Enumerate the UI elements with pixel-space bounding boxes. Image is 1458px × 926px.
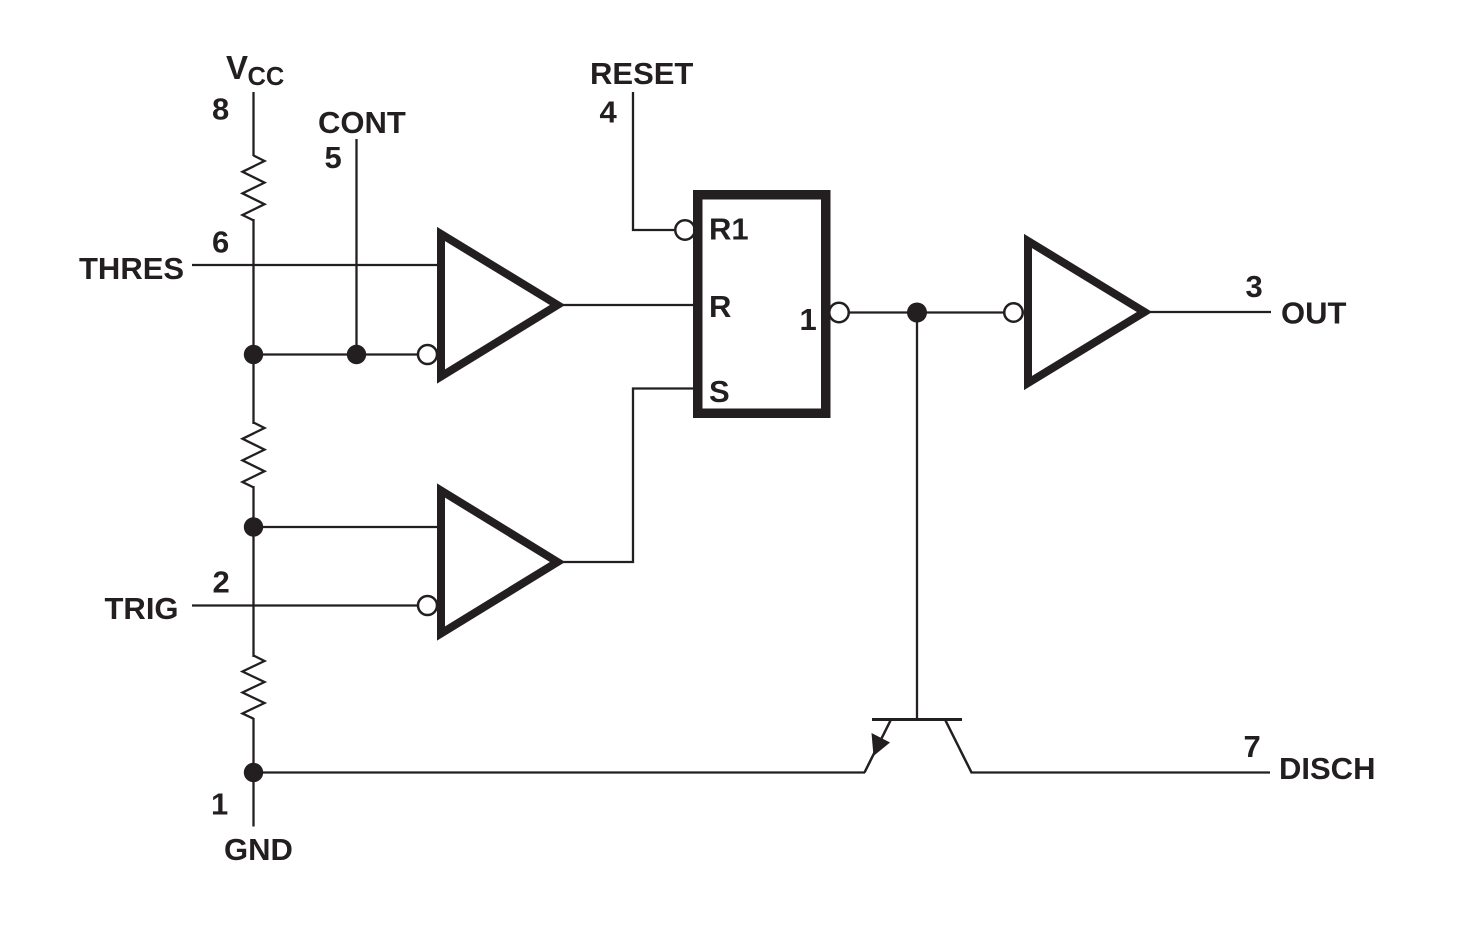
wire TRIG: [192, 604, 417, 606]
wire flip-flop output to buffer: [849, 311, 1004, 313]
op-amp comparator1 (THRES): [441, 234, 558, 377]
svg-text:S: S: [709, 374, 730, 409]
wire THRES: [192, 264, 441, 266]
inversion bubble comparator1 minus input: [418, 345, 437, 364]
wire rail RA to node: [252, 219, 254, 355]
transistor Q1 base bar: [872, 718, 962, 721]
svg-text:2: 2: [213, 565, 230, 600]
svg-text:7: 7: [1244, 729, 1261, 764]
junction dot CONT: [347, 345, 366, 364]
wire comparator2 output: [562, 389, 694, 563]
wire node B to comparator2 plus input: [254, 526, 442, 528]
wire comparator1 output to R: [562, 304, 694, 306]
flip-flop U1 box: [698, 195, 826, 414]
junction dot node A: [244, 345, 263, 364]
svg-text:V: V: [226, 49, 248, 86]
svg-text:GND: GND: [224, 832, 293, 867]
svg-text:1: 1: [211, 787, 228, 822]
svg-text:3: 3: [1246, 269, 1263, 304]
wire rail RB to node B: [252, 486, 254, 528]
resistor RC: [243, 656, 265, 719]
wire rail node B to RC: [252, 527, 254, 657]
wire VCC rail top: [252, 92, 254, 156]
svg-text:5: 5: [325, 140, 342, 175]
svg-text:CC: CC: [248, 63, 285, 91]
resistor RB: [243, 423, 265, 488]
wire GND node to transistor: [254, 771, 866, 773]
label VCC: [226, 49, 284, 91]
wire rail node A to RB: [252, 355, 254, 425]
svg-text:4: 4: [600, 95, 618, 130]
wire RESET: [633, 92, 674, 230]
svg-text:R1: R1: [709, 212, 749, 247]
resistor RA: [243, 156, 265, 221]
buffer U2 output stage: [1028, 241, 1145, 383]
wire buffer output to OUT: [1149, 311, 1271, 313]
svg-text:R: R: [709, 289, 731, 324]
wire GND stub: [252, 773, 254, 827]
svg-text:6: 6: [212, 225, 229, 260]
svg-text:CONT: CONT: [318, 105, 406, 140]
inversion bubble comparator2 minus input: [418, 596, 437, 615]
wire transistor to DISCH: [971, 771, 1271, 773]
wire node to comparator bubble: [254, 353, 418, 355]
wire rail RC to GND node: [252, 718, 254, 773]
svg-text:TRIG: TRIG: [105, 591, 179, 626]
svg-text:8: 8: [212, 92, 229, 127]
transistor Q1 emitter: [865, 721, 891, 773]
svg-text:RESET: RESET: [590, 56, 693, 91]
svg-text:THRES: THRES: [79, 251, 184, 286]
junction dot node B: [244, 517, 263, 536]
wire CONT vertical: [355, 139, 357, 355]
inversion bubble flip-flop output: [829, 303, 849, 323]
transistor Q1 emitter arrow: [872, 733, 891, 756]
inversion bubble R1 input: [675, 220, 695, 240]
junction dot output node: [907, 303, 927, 323]
wire output node to transistor base: [916, 313, 918, 720]
svg-text:OUT: OUT: [1281, 296, 1347, 331]
junction dot GND node: [244, 763, 263, 782]
svg-text:1: 1: [800, 302, 817, 337]
svg-text:DISCH: DISCH: [1279, 751, 1375, 786]
op-amp comparator2 (TRIG): [441, 491, 558, 634]
transistor Q1 collector: [946, 721, 972, 773]
inversion bubble buffer input: [1004, 303, 1023, 322]
